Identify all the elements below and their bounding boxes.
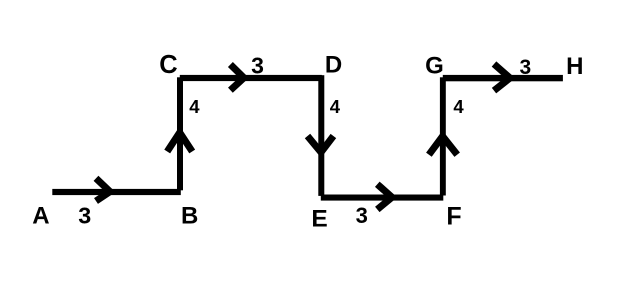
svg-text:B: B: [181, 203, 198, 230]
svg-text:3: 3: [251, 53, 264, 79]
wire F-G: [440, 77, 446, 195]
svg-text:E: E: [311, 205, 327, 232]
arrow on wire E-F: [377, 184, 392, 209]
svg-text:F: F: [446, 203, 461, 231]
arrow on wire D-E: [308, 136, 334, 152]
svg-text:4: 4: [330, 96, 341, 117]
svg-text:C: C: [159, 51, 177, 79]
wire B-C: [177, 77, 183, 190]
wire E-F: [321, 195, 444, 201]
svg-text:3: 3: [78, 203, 91, 229]
wire A-B: [52, 189, 181, 195]
svg-text:H: H: [566, 53, 583, 80]
svg-text:A: A: [32, 203, 49, 230]
svg-text:4: 4: [189, 96, 200, 117]
wire G-H: [443, 75, 563, 81]
arrow on wire C-D: [230, 65, 244, 91]
arrow on wire A-B: [96, 178, 110, 201]
arrow on wire F-G: [429, 136, 457, 154]
arrow on wire B-C: [167, 133, 192, 152]
svg-text:4: 4: [453, 96, 464, 117]
wire C-D: [180, 75, 322, 81]
svg-text:D: D: [325, 52, 342, 79]
svg-text:3: 3: [356, 203, 368, 228]
svg-text:G: G: [425, 53, 444, 80]
arrow on wire G-H: [494, 64, 510, 91]
wire D-E: [318, 75, 324, 196]
svg-text:3: 3: [519, 56, 531, 79]
